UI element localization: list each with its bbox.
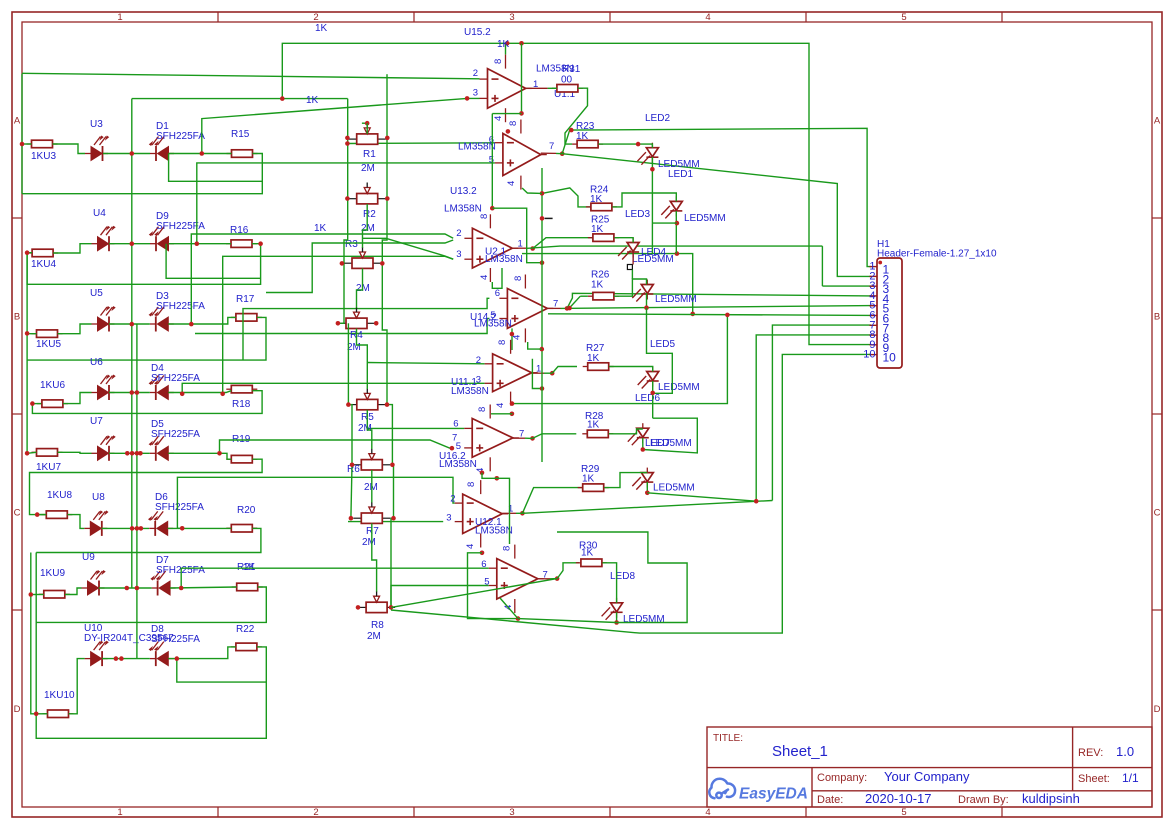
svg-text:U5: U5 — [90, 288, 103, 299]
svg-text:LED5MM: LED5MM — [655, 294, 697, 305]
svg-text:1K: 1K — [591, 224, 604, 235]
svg-text:REV:: REV: — [1078, 747, 1103, 759]
svg-text:10: 10 — [863, 349, 875, 361]
svg-text:SFH225FA: SFH225FA — [151, 373, 200, 384]
svg-text:Date:: Date: — [817, 794, 843, 806]
svg-text:3: 3 — [473, 88, 478, 99]
svg-text:LED1: LED1 — [668, 169, 693, 180]
svg-text:2: 2 — [456, 228, 461, 239]
svg-text:Sheet:: Sheet: — [1078, 773, 1110, 785]
svg-text:EasyEDA: EasyEDA — [739, 786, 808, 803]
svg-text:R20: R20 — [237, 505, 256, 516]
svg-text:1K: 1K — [590, 194, 603, 205]
svg-text:C: C — [1154, 508, 1161, 519]
svg-text:LM358N: LM358N — [485, 254, 523, 265]
svg-text:LED5MM: LED5MM — [623, 614, 665, 625]
svg-text:LED3: LED3 — [625, 209, 650, 220]
svg-text:5: 5 — [901, 807, 906, 818]
svg-text:4: 4 — [495, 403, 506, 408]
svg-text:Drawn By:: Drawn By: — [958, 794, 1009, 806]
svg-text:SFH225FA: SFH225FA — [156, 221, 205, 232]
svg-text:8: 8 — [479, 214, 490, 219]
svg-text:DY-IR204T_C39567: DY-IR204T_C39567 — [84, 633, 174, 644]
svg-text:1/1: 1/1 — [1122, 771, 1139, 785]
svg-text:LED5MM: LED5MM — [684, 213, 726, 224]
svg-text:SFH225FA: SFH225FA — [155, 502, 204, 513]
svg-text:2: 2 — [476, 355, 481, 366]
svg-text:1.0: 1.0 — [1116, 744, 1134, 759]
svg-text:8: 8 — [466, 482, 477, 487]
svg-text:4: 4 — [479, 275, 490, 280]
svg-text:2020-10-17: 2020-10-17 — [865, 791, 932, 806]
svg-text:R2: R2 — [363, 209, 376, 220]
svg-text:A: A — [14, 116, 21, 127]
svg-text:C: C — [14, 508, 21, 519]
svg-text:TITLE:: TITLE: — [713, 733, 743, 744]
svg-text:4: 4 — [506, 181, 517, 186]
svg-text:2: 2 — [450, 494, 455, 505]
svg-text:7: 7 — [452, 433, 457, 444]
svg-text:LED5MM: LED5MM — [632, 254, 674, 265]
svg-text:10: 10 — [883, 351, 897, 365]
svg-text:U13.2: U13.2 — [450, 186, 477, 197]
svg-text:D: D — [14, 704, 21, 715]
svg-text:1K: 1K — [587, 420, 600, 431]
svg-text:1KU5: 1KU5 — [36, 339, 61, 350]
svg-text:1K: 1K — [581, 548, 594, 559]
svg-text:R17: R17 — [236, 294, 255, 305]
svg-text:1K: 1K — [591, 280, 604, 291]
svg-text:LM358N: LM358N — [439, 459, 477, 470]
svg-text:8: 8 — [493, 59, 504, 64]
svg-text:U3: U3 — [90, 119, 103, 130]
svg-text:1KU7: 1KU7 — [36, 462, 61, 473]
svg-text:1K: 1K — [587, 353, 600, 364]
svg-text:4: 4 — [493, 116, 504, 121]
svg-text:R31: R31 — [562, 64, 581, 75]
svg-text:D: D — [1154, 704, 1161, 715]
svg-text:1K: 1K — [314, 223, 327, 234]
svg-text:4: 4 — [705, 807, 710, 818]
svg-text:LED8: LED8 — [610, 571, 635, 582]
svg-text:1K: 1K — [315, 23, 328, 34]
svg-text:U9: U9 — [82, 552, 95, 563]
svg-text:Your Company: Your Company — [884, 769, 970, 784]
svg-text:8: 8 — [508, 121, 519, 126]
svg-text:A: A — [1154, 116, 1161, 127]
svg-text:LM358N: LM358N — [475, 526, 513, 537]
svg-text:Sheet_1: Sheet_1 — [772, 743, 828, 760]
svg-text:1KU4: 1KU4 — [31, 259, 56, 270]
svg-text:1KU8: 1KU8 — [47, 490, 72, 501]
svg-text:R1: R1 — [363, 149, 376, 160]
svg-text:7: 7 — [549, 141, 554, 152]
svg-text:3: 3 — [446, 513, 451, 524]
svg-text:1KU6: 1KU6 — [40, 380, 65, 391]
svg-text:5: 5 — [484, 577, 489, 588]
svg-text:B: B — [14, 312, 20, 323]
svg-text:2: 2 — [473, 68, 478, 79]
svg-text:SFH225FA: SFH225FA — [151, 429, 200, 440]
svg-text:R15: R15 — [231, 129, 250, 140]
svg-text:R7: R7 — [366, 526, 379, 537]
svg-text:LED2: LED2 — [645, 113, 670, 124]
svg-text:U15.2: U15.2 — [464, 27, 491, 38]
svg-text:LM358N: LM358N — [458, 142, 496, 153]
svg-text:1KU9: 1KU9 — [40, 568, 65, 579]
svg-text:U8: U8 — [92, 492, 105, 503]
svg-text:1: 1 — [117, 807, 122, 818]
svg-text:1KU10: 1KU10 — [44, 690, 75, 701]
svg-text:5: 5 — [489, 155, 494, 166]
svg-text:8: 8 — [502, 546, 513, 551]
svg-text:LED6: LED6 — [635, 393, 660, 404]
svg-text:1KU3: 1KU3 — [31, 151, 56, 162]
svg-text:6: 6 — [481, 559, 486, 570]
svg-text:U4: U4 — [93, 208, 106, 219]
svg-text:3: 3 — [456, 249, 461, 260]
svg-text:Header-Female-1.27_1x10: Header-Female-1.27_1x10 — [877, 249, 997, 260]
svg-text:U6: U6 — [90, 357, 103, 368]
svg-text:SFH225FA: SFH225FA — [156, 301, 205, 312]
svg-text:2M: 2M — [358, 423, 372, 434]
svg-text:SFH225FA: SFH225FA — [156, 131, 205, 142]
svg-text:R18: R18 — [232, 399, 251, 410]
svg-text:3: 3 — [509, 12, 514, 23]
svg-text:1K: 1K — [582, 474, 595, 485]
svg-text:kuldipsinh: kuldipsinh — [1022, 791, 1080, 806]
svg-text:4: 4 — [705, 12, 710, 23]
svg-text:8: 8 — [497, 340, 508, 345]
svg-text:LED5: LED5 — [650, 339, 675, 350]
svg-text:8: 8 — [477, 407, 488, 412]
svg-text:LED5MM: LED5MM — [653, 483, 695, 494]
svg-text:2M: 2M — [361, 163, 375, 174]
svg-text:2: 2 — [313, 807, 318, 818]
svg-text:6: 6 — [453, 419, 458, 430]
svg-text:B: B — [1154, 312, 1160, 323]
svg-text:LM358N: LM358N — [474, 318, 512, 329]
svg-text:R22: R22 — [236, 624, 255, 635]
svg-text:Company:: Company: — [817, 772, 867, 784]
svg-text:5: 5 — [901, 12, 906, 23]
svg-text:8: 8 — [513, 276, 524, 281]
svg-text:2M: 2M — [364, 482, 378, 493]
svg-text:2M: 2M — [362, 537, 376, 548]
svg-text:1K: 1K — [576, 131, 589, 142]
svg-text:3: 3 — [509, 807, 514, 818]
svg-text:LED5MM: LED5MM — [658, 382, 700, 393]
svg-text:1: 1 — [117, 12, 122, 23]
svg-text:LM358N: LM358N — [451, 386, 489, 397]
svg-text:LM358N: LM358N — [444, 204, 482, 215]
svg-text:1K: 1K — [306, 95, 319, 106]
svg-text:U7: U7 — [90, 416, 103, 427]
svg-text:R8: R8 — [371, 620, 384, 631]
svg-text:4: 4 — [465, 544, 476, 549]
svg-text:2M: 2M — [367, 631, 381, 642]
svg-text:1K: 1K — [497, 39, 510, 50]
svg-text:LED7: LED7 — [645, 438, 670, 449]
svg-text:6: 6 — [495, 288, 500, 299]
svg-text:2: 2 — [313, 12, 318, 23]
